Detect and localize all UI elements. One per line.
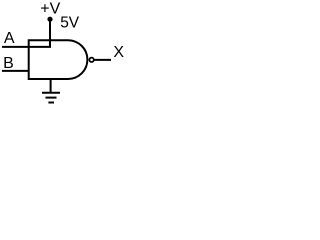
svg-text:A: A	[4, 30, 15, 47]
svg-text:B: B	[3, 55, 14, 72]
svg-text:X: X	[113, 44, 124, 61]
svg-text:+V: +V	[40, 0, 60, 17]
svg-text:5V: 5V	[60, 14, 80, 31]
